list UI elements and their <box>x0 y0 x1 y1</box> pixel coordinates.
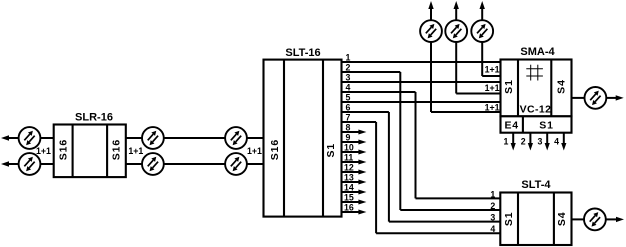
label 1+1 pair 1 <box>485 65 500 75</box>
wire drop tributary 6 to SLT-4 input 3 <box>389 112 500 222</box>
label tributary number 9 <box>346 133 351 143</box>
wire circle T2 down to SMA-4 <box>456 42 500 94</box>
svg-text:2: 2 <box>346 63 351 73</box>
east arrow SMA output <box>606 95 624 100</box>
svg-text:SMA-4: SMA-4 <box>520 46 555 58</box>
east arrow SLT-4 output <box>605 217 624 222</box>
svg-text:11: 11 <box>344 153 353 163</box>
wire tributary 6 horizontal <box>342 111 389 113</box>
block SMA-4 box <box>501 60 572 117</box>
svg-text:6: 6 <box>346 103 351 113</box>
wire tributary 12 arrow <box>342 170 367 175</box>
optical interface circle N1 <box>225 127 247 149</box>
port S4 of SLT-4 <box>556 211 568 226</box>
optical interface circle SMA out <box>585 87 607 109</box>
wire SMA-4 to output circle <box>572 97 585 99</box>
svg-text:2: 2 <box>490 201 495 211</box>
optical interface circle T2 <box>445 20 467 42</box>
block SLR-16 box <box>54 125 126 178</box>
wire tributary 2 horizontal <box>342 71 401 73</box>
label VC-12 <box>520 104 552 116</box>
svg-text:4: 4 <box>346 83 351 93</box>
svg-text:4: 4 <box>554 136 559 146</box>
svg-text:2: 2 <box>521 136 526 146</box>
port S1 lower row <box>539 120 553 132</box>
label 1+1 mid-right <box>247 146 262 156</box>
svg-text:5: 5 <box>346 93 351 103</box>
title SLR-16 <box>75 112 113 124</box>
label tributary number 1 <box>346 53 351 63</box>
wire N2 to SLT-16 <box>247 163 264 165</box>
port E4 <box>504 120 518 132</box>
port S4 of SMA-4 <box>556 79 568 94</box>
label tributary number 6 <box>346 103 351 113</box>
label 1+1 mid-left <box>128 146 143 156</box>
port S16 right of SLR-16 <box>111 139 123 160</box>
port S1 of SLT-4 <box>503 211 515 226</box>
title SMA-4 <box>520 46 555 58</box>
south arrow E4/S1 port 1 <box>511 133 516 151</box>
label tributary number 13 <box>344 173 354 183</box>
title SLT-16 <box>285 47 320 59</box>
label SLT-4 input number 4 <box>490 224 495 234</box>
svg-text:3: 3 <box>346 73 351 83</box>
wire tributary 5 to SMA-4 <box>342 101 501 103</box>
label tributary number 5 <box>346 93 351 103</box>
block SLT-4 box <box>500 193 571 246</box>
optical interface circle M2 <box>142 153 164 175</box>
svg-text:S16: S16 <box>269 139 281 160</box>
label tributary number 12 <box>344 163 354 173</box>
svg-text:9: 9 <box>346 133 351 143</box>
optical interface circle W1 <box>19 127 41 149</box>
wire tributary 7 horizontal <box>342 121 377 123</box>
wire W2 to SLR-16 <box>40 163 54 165</box>
south arrow E4/S1 port 4 <box>561 133 566 151</box>
svg-text:10: 10 <box>344 143 354 153</box>
wire drop tributary 2 to SLT-4 input 2 <box>400 72 500 210</box>
wire tributary 9 arrow <box>342 140 367 145</box>
label SLT-4 input number 1 <box>490 189 495 199</box>
svg-text:S1: S1 <box>503 79 515 94</box>
svg-text:S1: S1 <box>539 120 553 132</box>
wire drop tributary 7 to SLT-4 input 4 <box>376 122 500 233</box>
north arrow above circle T2 <box>454 1 459 21</box>
label port number 3 <box>538 136 543 146</box>
svg-text:S1: S1 <box>503 211 515 226</box>
label tributary number 15 <box>344 193 354 203</box>
wire SLR-16 to circle M2 <box>126 163 143 165</box>
wire tributary 3 to SMA-4 <box>342 81 501 83</box>
svg-text:1+1: 1+1 <box>247 146 262 156</box>
crossconnect matrix symbol <box>526 65 543 81</box>
svg-text:1+1: 1+1 <box>485 83 500 93</box>
label tributary number 11 <box>344 153 353 163</box>
optical interface circle M1 <box>142 127 164 149</box>
label SLT-4 input number 3 <box>490 213 495 223</box>
wire M2 to N2 <box>164 163 226 165</box>
svg-text:SLT-4: SLT-4 <box>521 179 551 191</box>
optical interface circle T1 <box>420 20 442 42</box>
svg-text:1: 1 <box>490 189 495 199</box>
south arrow E4/S1 port 3 <box>545 133 550 151</box>
label tributary number 4 <box>346 83 351 93</box>
svg-text:15: 15 <box>344 193 354 203</box>
wire tributary 1 to SMA-4 <box>342 61 501 63</box>
label tributary number 3 <box>346 73 351 83</box>
svg-text:1: 1 <box>504 136 509 146</box>
svg-text:4: 4 <box>490 224 495 234</box>
svg-text:1+1: 1+1 <box>485 102 500 112</box>
svg-text:S4: S4 <box>556 79 568 94</box>
label port number 1 <box>504 136 509 146</box>
wire tributary 15 arrow <box>342 200 367 205</box>
west output arrow lower <box>1 161 19 166</box>
svg-text:1+1: 1+1 <box>128 146 143 156</box>
svg-text:S1: S1 <box>325 143 337 158</box>
north arrow above circle T3 <box>480 1 485 21</box>
label tributary number 16 <box>344 203 354 213</box>
wire tributary 13 arrow <box>342 180 367 185</box>
optical interface circle N2 <box>225 153 247 175</box>
svg-text:1: 1 <box>346 53 351 63</box>
wire SLR-16 to circle M1 <box>126 137 143 139</box>
label tributary number 2 <box>346 63 351 73</box>
port S1 of SLT-16 <box>325 143 337 158</box>
label SLT-4 input number 2 <box>490 201 495 211</box>
svg-text:16: 16 <box>344 203 354 213</box>
optical interface circle SLT-4 out <box>584 209 606 231</box>
wire tributary 16 arrow <box>342 210 367 215</box>
block E4/S1 row <box>501 116 572 132</box>
port S1 of SMA-4 <box>503 79 515 94</box>
title SLT-4 <box>521 179 551 191</box>
svg-text:VC-12: VC-12 <box>520 104 552 116</box>
svg-text:8: 8 <box>346 123 351 133</box>
svg-text:13: 13 <box>344 173 354 183</box>
wire tributary 10 arrow <box>342 150 367 155</box>
optical interface circle W2 <box>19 153 41 175</box>
svg-text:E4: E4 <box>504 120 518 132</box>
svg-text:S16: S16 <box>57 139 69 160</box>
svg-text:7: 7 <box>346 113 351 123</box>
label tributary number 7 <box>346 113 351 123</box>
svg-text:12: 12 <box>344 163 354 173</box>
svg-text:SLT-16: SLT-16 <box>285 47 320 59</box>
wire drop tributary 4 to SLT-4 input 1 <box>416 92 501 198</box>
label tributary number 14 <box>344 183 354 193</box>
port S16 left of SLR-16 <box>57 139 69 160</box>
block SLT-16 box <box>264 60 342 217</box>
port S16 of SLT-16 <box>269 139 281 160</box>
svg-text:S16: S16 <box>111 139 123 160</box>
label 1+1 west <box>36 146 51 156</box>
svg-text:SLR-16: SLR-16 <box>75 112 113 124</box>
wire circle T3 down to SMA-4 <box>482 42 500 76</box>
wire tributary 11 arrow <box>342 160 367 165</box>
label 1+1 pair 3 <box>485 102 500 112</box>
wire tributary 8 arrow <box>342 130 367 135</box>
svg-text:1+1: 1+1 <box>36 146 51 156</box>
optical interface circle T3 <box>471 20 493 42</box>
label 1+1 pair 2 <box>485 83 500 93</box>
wire tributary 14 arrow <box>342 190 367 195</box>
label port number 2 <box>521 136 526 146</box>
west output arrow upper <box>1 135 19 140</box>
svg-text:3: 3 <box>490 213 495 223</box>
north arrow above circle T1 <box>428 1 433 21</box>
wire M1 to N1 <box>164 137 226 139</box>
label tributary number 10 <box>344 143 354 153</box>
svg-text:3: 3 <box>538 136 543 146</box>
svg-text:14: 14 <box>344 183 354 193</box>
wire SLT-4 to output circle <box>572 218 585 220</box>
wire tributary 4 horizontal <box>342 91 416 93</box>
label port number 4 <box>554 136 559 146</box>
wire N1 to SLT-16 <box>247 137 264 139</box>
label tributary number 8 <box>346 123 351 133</box>
wire W1 to SLR-16 <box>40 137 54 139</box>
svg-text:S4: S4 <box>556 211 568 226</box>
svg-text:1+1: 1+1 <box>485 65 500 75</box>
wire circle T1 down to SMA-4 <box>431 42 500 112</box>
south arrow E4/S1 port 2 <box>528 133 533 151</box>
